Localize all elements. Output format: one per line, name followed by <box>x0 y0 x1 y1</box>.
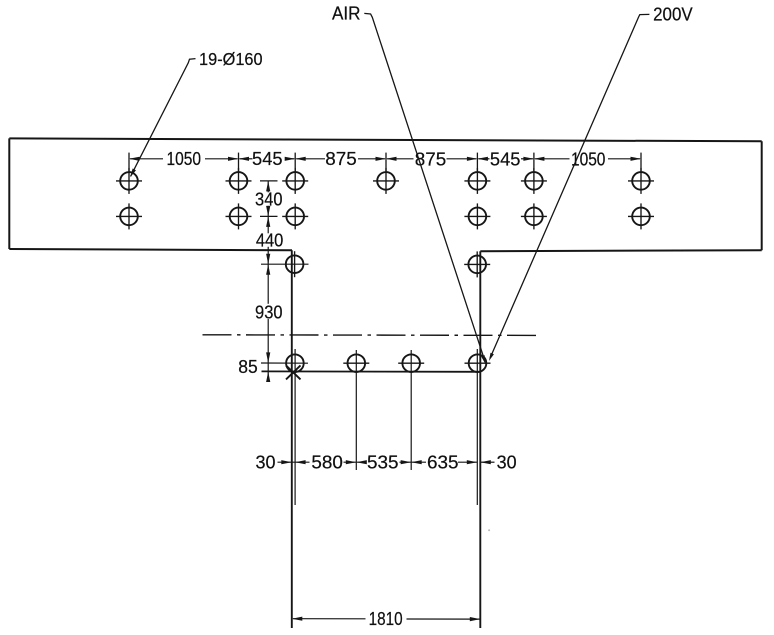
right hole column extension line <box>476 349 478 505</box>
svg-text:AIR: AIR <box>332 4 361 24</box>
vertical dim chain ticks <box>260 180 278 182</box>
leader 200V <box>490 14 649 357</box>
bottom dimension arrows <box>281 460 292 464</box>
svg-text:535: 535 <box>367 453 399 473</box>
leader 19-phi160 <box>131 59 196 177</box>
plate left edge <box>8 138 10 249</box>
leader 200V arrowhead <box>489 353 494 361</box>
hole row2 x129 <box>120 208 138 226</box>
hole row1 x238.5 <box>230 172 248 190</box>
top dimension line segments <box>130 158 163 160</box>
svg-text:340: 340 <box>255 190 283 210</box>
hole row2 x533.9 <box>525 208 543 226</box>
hole stem-top right <box>468 256 486 274</box>
top dimension extension ticks <box>128 153 130 171</box>
plate right edge <box>761 141 763 250</box>
hole row1 x295.2 <box>286 172 304 190</box>
bottom dimension line segments <box>278 461 310 463</box>
plate top edge <box>9 138 761 141</box>
hole bottom row 1 <box>286 354 304 372</box>
svg-text:30: 30 <box>497 453 517 473</box>
svg-text:85: 85 <box>238 357 258 377</box>
svg-text:1050: 1050 <box>167 149 202 169</box>
hole stem-top left <box>286 255 304 273</box>
svg-text:545: 545 <box>252 149 283 169</box>
1810 right arrow <box>470 617 481 621</box>
svg-text:545: 545 <box>490 149 521 169</box>
hole bottom row 2 <box>348 354 366 372</box>
svg-text:635: 635 <box>427 453 459 473</box>
leader AIR <box>364 13 485 361</box>
hole column extension (580/535) <box>355 350 357 470</box>
plate stem bottom edge (85 extension) <box>262 370 482 372</box>
left hole column extension line <box>294 349 296 505</box>
hole row2 x238.5 <box>230 208 248 226</box>
hole row2 x477.4 <box>469 208 487 226</box>
1810 dimension line <box>293 618 366 620</box>
svg-text:580: 580 <box>311 453 343 473</box>
bottom-row hole1 cross <box>261 362 308 364</box>
X datum mark <box>286 365 301 379</box>
svg-text:1810: 1810 <box>369 609 403 629</box>
plate right-wing bottom edge <box>480 250 761 251</box>
leader AIR arrowhead <box>481 355 486 364</box>
svg-text:875: 875 <box>325 149 357 169</box>
top dimension arrows <box>129 157 140 161</box>
hole row1 x641 <box>632 172 650 190</box>
plate stem left edge / 1810 extension <box>291 250 293 628</box>
svg-text:440: 440 <box>256 230 284 250</box>
stem-top-left hole cross <box>261 263 309 265</box>
hole row1 x129 <box>120 172 138 190</box>
svg-text:19-Ø160: 19-Ø160 <box>199 49 263 69</box>
hole column extension (535/635) <box>410 350 412 470</box>
vertical dim chain line <box>267 181 269 192</box>
hole bottom row 3 <box>402 354 420 372</box>
plate stem right edge / 1810 extension <box>479 251 481 628</box>
plate left-wing bottom edge <box>9 249 292 250</box>
svg-text:30: 30 <box>256 453 276 473</box>
scan speck <box>488 529 490 531</box>
85 outside arrow (below) <box>266 372 270 383</box>
vertical dim chain arrows <box>266 181 270 192</box>
hole row1 x533.9 <box>525 172 543 190</box>
hole row2 x641 <box>632 208 650 226</box>
hole row2 x295.2 <box>286 208 304 226</box>
svg-text:930: 930 <box>255 303 283 323</box>
dash-dot centerline <box>203 334 539 337</box>
1810 left arrow <box>292 617 303 621</box>
hole row1 x477.4 <box>469 172 487 190</box>
svg-text:200V: 200V <box>653 5 693 25</box>
leader 19-phi160 arrowhead <box>130 169 136 178</box>
hole bottom row 4 <box>469 354 487 372</box>
hole row1 x386 <box>377 172 395 190</box>
